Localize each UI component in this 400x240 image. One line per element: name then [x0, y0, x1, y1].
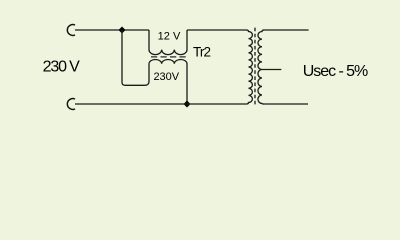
transformer Tr2 winding 12V (series): [149, 30, 187, 55]
svg-text:Tr2: Tr2: [193, 45, 210, 60]
wire bottom from input to T1 primary: [75, 103, 247, 105]
terminal bottom-left input: [67, 99, 75, 110]
wire secondary center tap: [262, 69, 281, 71]
transformer Tr2 winding 230V (shunt): [149, 59, 187, 104]
junction top node: [119, 27, 126, 34]
transformer T1 primary winding: [247, 30, 253, 104]
terminal top-left input: [67, 25, 75, 36]
core T1 dashed line: [254, 28, 256, 107]
transformer T1 secondary winding: [258, 30, 264, 104]
svg-text:Usec - 5%: Usec - 5%: [303, 63, 368, 80]
wire secondary top output: [264, 29, 309, 31]
svg-text:230V: 230V: [153, 71, 179, 83]
core Tr2 dashed line: [151, 56, 186, 58]
wire top from Tr2 to T1 primary: [187, 29, 247, 31]
wire secondary bottom output: [264, 103, 309, 105]
junction bottom node: [184, 101, 191, 108]
wire left drop to 230V winding: [122, 30, 149, 85]
wire top from input to Tr2 12V winding: [75, 29, 149, 31]
svg-text:12 V: 12 V: [158, 30, 181, 42]
svg-text:230 V: 230 V: [43, 59, 81, 76]
